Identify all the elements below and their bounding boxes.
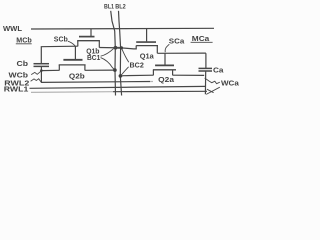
- wire WWL write word line: [31, 27, 214, 30]
- junction dot BC1 read contact on BL1: [113, 68, 117, 72]
- label Q1a: [140, 53, 154, 60]
- capacitor Cb storage capacitor left cell: [34, 64, 50, 67]
- node BL2 bit line 2 vertical: [119, 11, 122, 96]
- svg-text:Q2b: Q2b: [69, 74, 85, 81]
- svg-text:SCa: SCa: [169, 39, 185, 46]
- svg-text:SCb: SCb: [54, 36, 68, 43]
- label Q1b: [86, 49, 99, 56]
- label SCb: [54, 36, 68, 43]
- leader BC2 fork upper: [122, 49, 129, 62]
- junction dot BC2 write contact on BL2: [120, 46, 123, 49]
- junction dot BC1 write contact on BL1: [114, 46, 123, 50]
- label RWL1: [4, 86, 29, 93]
- leader BC2 fork lower: [121, 67, 129, 76]
- tick continuation slash bottom right: [206, 87, 220, 94]
- junction dot BC2 read contact on BL2: [119, 74, 123, 78]
- label BC2: [130, 63, 144, 70]
- leader RWL2 pointer: [31, 79, 42, 82]
- wire read path right: BL2 contact to Q2a to Ca junction: [121, 74, 205, 77]
- label WWL: [3, 26, 23, 33]
- wire read path left: Cb junction to Q2b to BL1 contact: [41, 69, 115, 72]
- label BC1: [87, 55, 100, 62]
- wire write path left: Q1b to BL1 BL2 to Q1a: [99, 46, 136, 49]
- underline MCb: [16, 43, 32, 45]
- transistor Q1a write transistor right cell: [136, 29, 158, 53]
- label MCb: [16, 38, 32, 45]
- transistor Q2b read transistor left cell: [59, 46, 86, 70]
- label Ca: [213, 68, 224, 75]
- wire next-row word line bottom: [31, 91, 207, 92]
- svg-text:BC2: BC2: [130, 63, 144, 70]
- label BL2: [115, 4, 126, 11]
- svg-text:MCa: MCa: [192, 36, 210, 43]
- leader WCb pointer: [31, 71, 41, 74]
- underline MCa: [191, 41, 213, 43]
- label Q2b: [69, 74, 85, 81]
- svg-text:WCb: WCb: [9, 73, 29, 80]
- svg-text:WWL: WWL: [3, 26, 23, 33]
- svg-text:WCa: WCa: [221, 79, 240, 88]
- capacitor Ca storage capacitor right cell: [199, 53, 213, 94]
- svg-text:BC1: BC1: [87, 55, 100, 62]
- leader WCa pointer: [205, 78, 220, 84]
- node SCa storage node line right cell: [157, 52, 206, 54]
- svg-text:BL1: BL1: [104, 4, 114, 11]
- svg-text:Q1a: Q1a: [140, 53, 154, 60]
- svg-text:RWL1: RWL1: [4, 86, 29, 93]
- label Q2a: [158, 77, 174, 84]
- wire RWL1 read word line 1: [30, 86, 206, 88]
- junction dot WCb node: [40, 69, 43, 72]
- label SCa: [169, 39, 185, 46]
- label WCa: [221, 79, 240, 88]
- svg-text:Cb: Cb: [17, 61, 29, 68]
- svg-text:MCb: MCb: [16, 38, 32, 45]
- transistor Q1b write transistor left cell: [77, 29, 100, 48]
- leader SCa pointer: [165, 44, 169, 52]
- wire RWL2 read word line 2: [41, 67, 153, 83]
- label BL1: [104, 4, 114, 11]
- svg-text:Q2a: Q2a: [158, 77, 174, 84]
- label WCb: [9, 73, 29, 80]
- label MCa: [192, 36, 210, 43]
- transistor Q2a read transistor right cell: [153, 53, 176, 75]
- leader BC1 fork upper: [101, 49, 114, 57]
- svg-text:BL2: BL2: [115, 4, 126, 11]
- label Cb: [17, 61, 29, 68]
- label RWL2: [4, 81, 29, 88]
- node BL1 bit line 1 vertical: [111, 11, 116, 96]
- leader BC1 fork lower: [101, 58, 115, 70]
- leader SCb pointer: [68, 41, 75, 46]
- node SCb storage node line left cell: [41, 46, 78, 63]
- svg-text:Ca: Ca: [213, 68, 224, 75]
